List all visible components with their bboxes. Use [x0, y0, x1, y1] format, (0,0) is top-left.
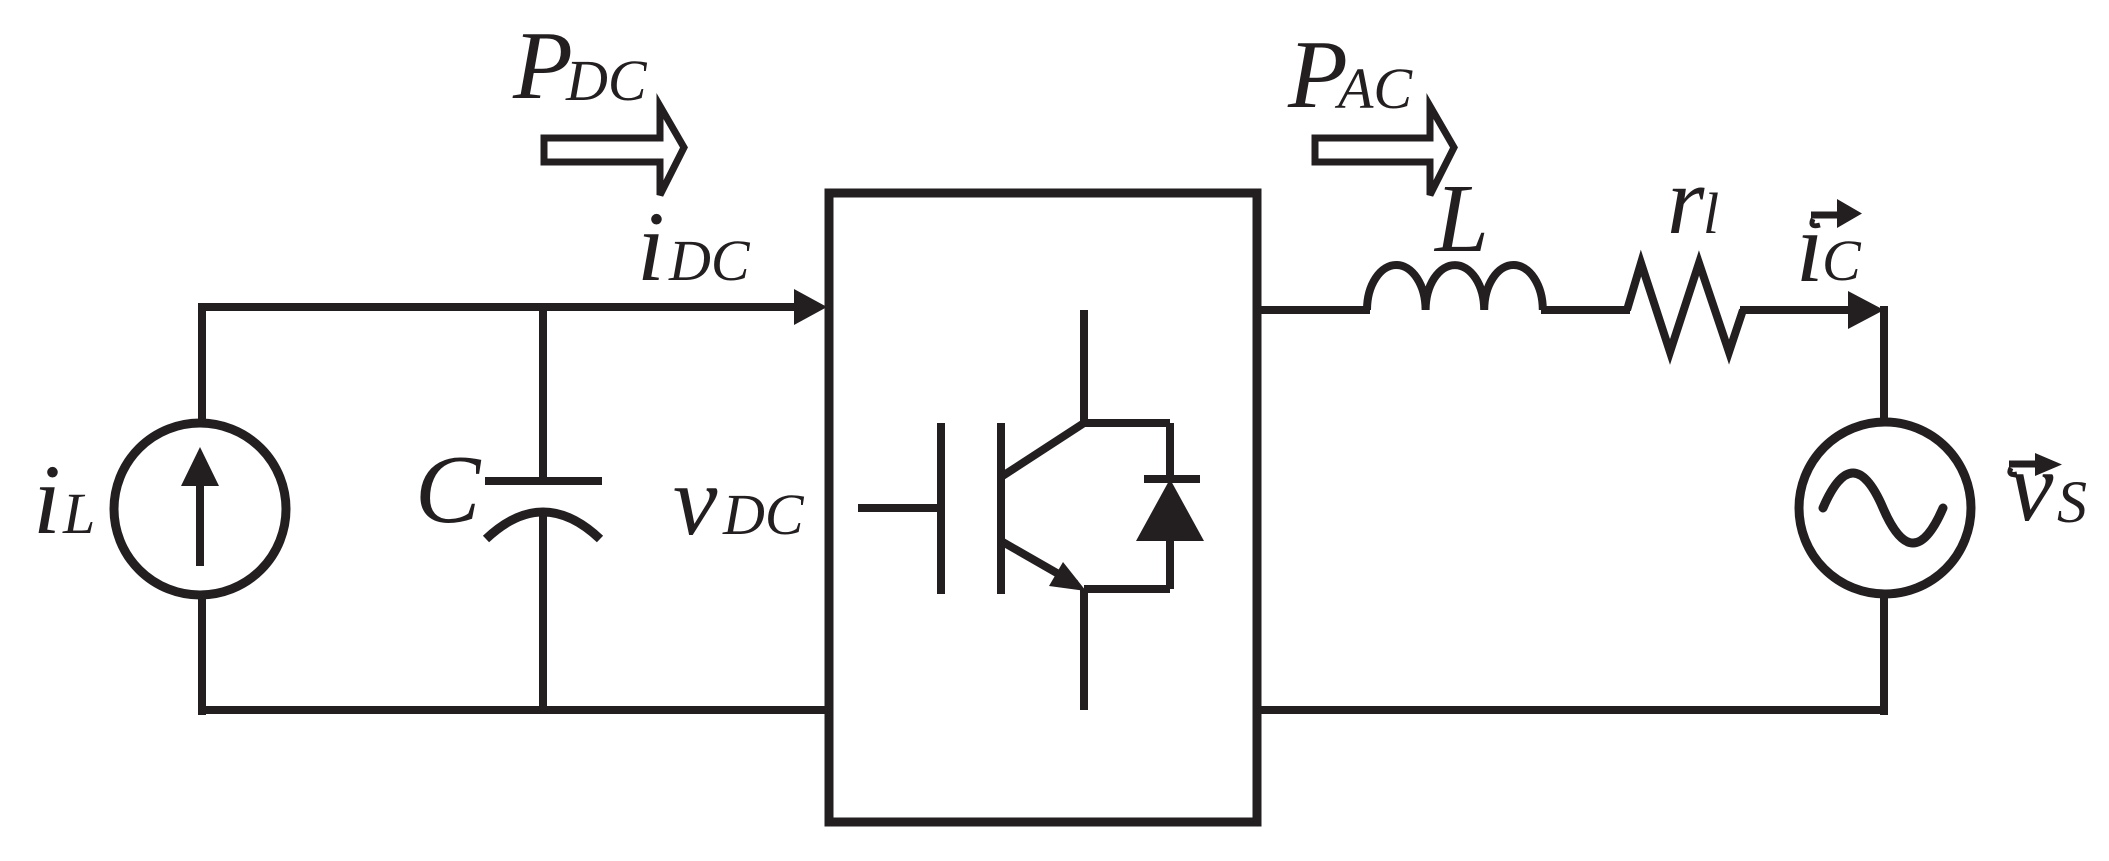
svg-text:AC: AC — [1334, 56, 1413, 121]
svg-text:L: L — [62, 481, 95, 546]
svg-text:DC: DC — [668, 228, 751, 293]
svg-text:L: L — [1433, 165, 1489, 272]
svg-text:v: v — [673, 445, 718, 556]
svg-text:i: i — [33, 444, 61, 555]
svg-text:DC: DC — [565, 48, 648, 113]
svg-text:r: r — [1667, 147, 1705, 254]
svg-text:v: v — [2009, 431, 2054, 542]
svg-text:S: S — [2057, 469, 2087, 535]
svg-text:C: C — [1822, 228, 1862, 293]
svg-text:P: P — [512, 12, 573, 120]
svg-text:ı: ı — [1796, 192, 1824, 303]
svg-text:i: i — [637, 191, 665, 302]
svg-text:l: l — [1703, 181, 1719, 246]
svg-text:DC: DC — [722, 482, 805, 547]
svg-text:C: C — [415, 436, 482, 544]
